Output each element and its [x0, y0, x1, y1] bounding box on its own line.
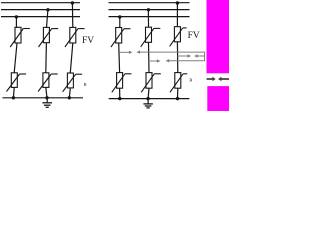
wire left phase1 mid [14, 43, 17, 73]
current-path arrow A2 (right, long line, points left, corners down at far right) [136, 50, 204, 62]
wire left phase3 drop [71, 3, 73, 28]
svg-text:FV: FV [82, 36, 94, 46]
varistor FV9 (right phase3 upper) [170, 27, 187, 47]
current-path arrow B2 (right, points left toward B1) [194, 54, 205, 57]
varistor FV12 (right phase3 lower) [170, 73, 187, 93]
junction dot left bottom1 [12, 96, 15, 99]
varistor FV2 (left phase2 upper) [39, 27, 59, 47]
junction dot right tap2 [147, 8, 150, 11]
right bottom earth bus [109, 98, 190, 100]
ground (left) [42, 98, 52, 108]
wire right phase1 lower [119, 88, 121, 98]
wire right phase2 drop [147, 10, 149, 28]
right bus line L1 [109, 2, 190, 4]
wire right phase2 lower [147, 88, 150, 98]
wire left phase3 lower [69, 88, 70, 98]
right bus line L2 [109, 9, 190, 11]
wire left phase1 lower [12, 87, 15, 97]
right bus line L3 [109, 16, 190, 18]
svg-text:R: R [189, 77, 193, 82]
varistor FV10 (right phase1 lower) [112, 73, 132, 93]
junction dot left tap3 [71, 1, 74, 4]
left bus line L3 [1, 16, 80, 18]
junction dot right bottom1 [118, 97, 121, 100]
wire right phase2 mid [148, 42, 151, 72]
varistor FV11 (right phase2 lower) [141, 73, 161, 93]
wire left phase2 lower [46, 87, 47, 97]
svg-text:FV: FV [188, 31, 200, 41]
junction dot left tap1 [15, 15, 18, 18]
junction dot right tap1 [118, 15, 121, 18]
left bus line L1 [1, 2, 80, 4]
wire right phase3 drop [176, 3, 178, 27]
junction dot left tap2 [46, 8, 49, 11]
current-path arrow C1 (right, from phase2, points right) [148, 59, 160, 62]
wire right phase1 drop [119, 17, 121, 28]
bold arrow right (white band, points right) [207, 77, 216, 82]
left bottom earth bus [3, 97, 84, 99]
svg-text:R: R [84, 82, 88, 87]
bold arrow left (white band, points left) [218, 77, 229, 82]
wire left phase2 mid [45, 43, 48, 73]
magenta highlight block (lower) [207, 86, 229, 111]
left bus line L2 [1, 9, 80, 11]
magenta highlight block (upper) [207, 0, 230, 73]
varistor FV5 (left phase2 lower) [38, 73, 58, 92]
junction dot left bottom3 [68, 96, 71, 99]
wire left phase2 drop [47, 10, 48, 28]
junction dot right tap3 [176, 1, 179, 4]
ground (right) [143, 99, 153, 108]
varistor FV8 (right phase2 upper) [141, 27, 161, 47]
current-path arrow B1 (right, from phase3, points right) [177, 54, 191, 57]
varistor FV7 (right phase1 upper) [111, 28, 131, 48]
current-path arrow A1 (right, from phase1, points right) [120, 51, 133, 54]
wire right phase1 mid [118, 43, 121, 73]
wire left phase1 drop [16, 17, 17, 28]
wire right phase3 lower [177, 88, 179, 98]
junction dot right bottom3 [176, 97, 179, 100]
varistor FV4 (left phase1 lower) [7, 73, 27, 92]
wire left phase3 mid [70, 43, 73, 73]
varistor FV6 (left phase3 lower) [63, 73, 83, 92]
varistor FV1 (left phase1 upper) [10, 27, 30, 47]
varistor FV3 (left phase3 upper) [65, 27, 85, 47]
junction dot left bottom2 [45, 96, 48, 99]
wire right phase3 mid [176, 42, 178, 73]
junction dot right bottom2 [146, 97, 149, 100]
